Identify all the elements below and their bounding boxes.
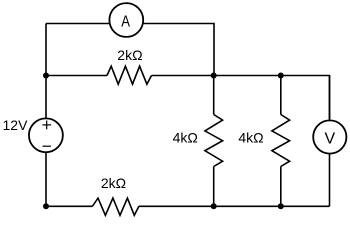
svg-text:4kΩ: 4kΩ	[173, 129, 198, 145]
wire bottom right of R4	[139, 205, 330, 207]
node A junction dot left middle	[43, 73, 49, 79]
node E junction dot branch R2 bottom	[211, 203, 217, 209]
resistor R3 4k ohm	[272, 115, 290, 167]
resistor R4 2k ohm bottom	[92, 198, 138, 215]
wire left vertical through source	[45, 24, 47, 207]
wire branch R2 upper lead	[213, 76, 215, 115]
svg-text:A: A	[121, 13, 130, 30]
wire branch R3 upper lead	[280, 76, 282, 115]
voltage source V1 minus sign	[43, 145, 51, 147]
voltage source V1 circle	[29, 118, 63, 152]
wire branch R2 lower lead	[213, 167, 215, 207]
ammeter U1 circle	[109, 3, 143, 37]
svg-text:12V: 12V	[3, 117, 29, 133]
wire middle horizontal left of R1	[46, 75, 107, 77]
node C junction dot branch R3 top	[278, 73, 284, 79]
resistor R2 4k ohm	[205, 115, 223, 167]
svg-text:2kΩ: 2kΩ	[101, 175, 126, 191]
resistor R1 2k ohm top	[107, 66, 152, 84]
wire voltmeter lower lead	[329, 76, 331, 207]
svg-text:4kΩ: 4kΩ	[238, 129, 263, 145]
node B junction dot branch R2 top	[211, 73, 217, 79]
svg-text:2kΩ: 2kΩ	[117, 47, 142, 63]
wire branch R3 lower lead	[280, 167, 282, 207]
voltage source V1 plus sign	[42, 121, 51, 130]
voltmeter U2 circle	[313, 120, 346, 153]
wire middle horizontal right of R1 to voltmeter branch	[152, 76, 330, 121]
node D junction dot bottom left	[43, 203, 49, 209]
node F junction dot branch R3 bottom	[278, 203, 284, 209]
wire bottom left of R4	[46, 205, 92, 207]
wire top from source to ammeter branch	[46, 24, 214, 76]
svg-text:V: V	[324, 131, 335, 148]
